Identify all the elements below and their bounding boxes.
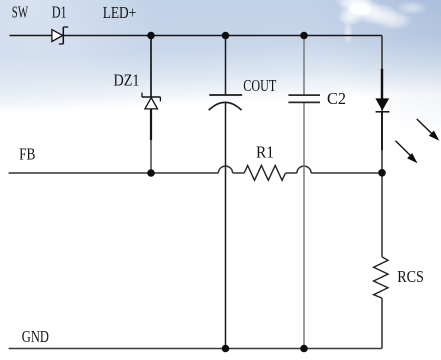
junction node GND/C2 [300,345,308,353]
LED emission arrow 1 [417,119,440,141]
wire: DZ1 rail lower [150,140,152,173]
diode D1 [52,27,68,44]
wire: GND rail [9,348,382,350]
junction node FB/DZ1 [147,169,155,177]
svg-text:C2: C2 [327,89,346,108]
wire: FB rail left segment [9,172,219,174]
svg-text:DZ1: DZ1 [114,71,140,90]
svg-text:R1: R1 [256,143,274,162]
wire: FB hop over C2 rail [297,166,311,173]
wire: COUT rail upper [225,36,227,96]
wire: DZ1 rail upper [150,36,152,98]
wire: FB segment after R1 [286,172,297,174]
svg-text:FB: FB [19,145,35,164]
sky background [0,0,441,128]
junction node on top rail at DZ1 [147,32,155,40]
junction node on top rail at COUT [222,32,230,40]
junction node GND/COUT [222,345,230,353]
wire: FB hop over COUT rail [218,166,232,173]
wire: FB segment to R1 [233,172,245,174]
wire: C2 rail lower [303,102,305,348]
resistor RCS [374,257,388,298]
svg-text:SW: SW [12,2,29,21]
svg-text:D1: D1 [52,2,67,21]
junction node FB/LED rail [378,169,386,177]
capacitor C2 [288,95,320,102]
LED emission arrow 2 [396,141,418,164]
junction node on top rail at C2 [300,32,308,40]
zener diode DZ1 [142,93,160,109]
LED diode [376,69,390,150]
capacitor COUT [209,95,242,110]
wire: COUT rail lower [225,102,227,348]
svg-text:COUT: COUT [243,76,276,95]
wire: FB segment to LED rail [311,172,382,174]
wire: right vertical rail upper [381,36,383,257]
wire: C2 rail upper [303,36,305,96]
svg-text:RCS: RCS [397,267,424,286]
svg-text:LED+: LED+ [103,3,137,22]
wire: SW/LED+ top rail [10,35,383,37]
cloud [334,0,428,45]
wire: right vertical rail lower [381,298,383,348]
wire: DZ1 anode lead thick [150,109,152,140]
resistor R1 [244,165,285,180]
svg-text:GND: GND [22,327,49,346]
